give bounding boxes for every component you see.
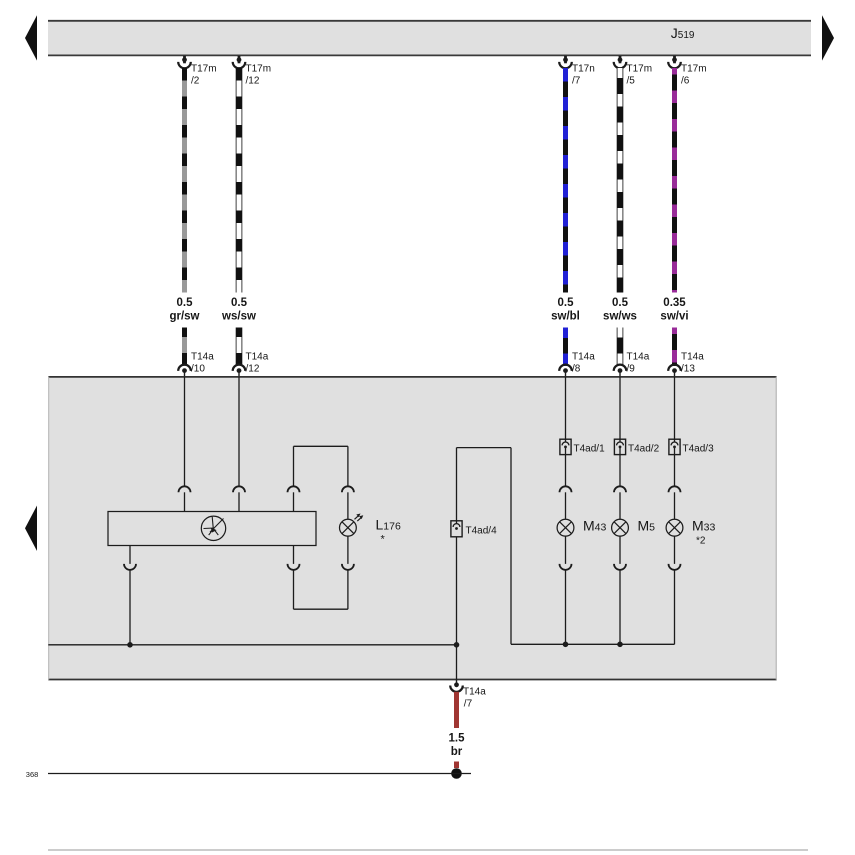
ground wire 368 <box>48 773 471 775</box>
label J519 <box>671 25 695 41</box>
wire sw/vi wire from J519 T17m/6 to T14a/13 (upper striped segment) <box>672 68 677 293</box>
svg-text:/7: /7 <box>464 699 473 710</box>
motor / actuator symbol <box>201 516 225 540</box>
connector T4ad/4 <box>451 521 462 537</box>
label 368 <box>26 770 39 779</box>
svg-text:T17m: T17m <box>191 64 217 75</box>
vertical wire through T4ad/4 to T14a/7 <box>456 448 458 680</box>
connector T14a/10 pin at control unit box <box>178 352 214 377</box>
junction dot lamp rail M5 <box>617 642 623 648</box>
connector arc pin 2 of switch module <box>233 486 245 511</box>
svg-text:sw/bl: sw/bl <box>551 311 580 323</box>
connector T17m/2 pin at bus J519 <box>178 56 216 87</box>
connector T4ad/1 <box>560 439 571 486</box>
svg-text:/9: /9 <box>627 364 636 375</box>
LED L176 lamp circle with cross and arrows <box>340 514 364 537</box>
connector T17n/7 pin at bus J519 <box>559 56 595 87</box>
svg-text:0.5: 0.5 <box>612 297 629 309</box>
internal ground rail left segment <box>48 644 456 646</box>
svg-text:gr/sw: gr/sw <box>169 311 199 323</box>
svg-text:1.5: 1.5 <box>449 733 466 745</box>
svg-text:T17m: T17m <box>681 64 707 75</box>
svg-text:/10: /10 <box>191 364 205 375</box>
connector arc below LED L176 <box>342 536 354 570</box>
connector arc above lamp M5 <box>614 486 626 519</box>
svg-text:T14a: T14a <box>572 352 595 363</box>
wire from lamp M33 to ground rail <box>674 570 676 644</box>
junction dot lamp rail M43 <box>563 642 569 648</box>
wire from T14a/10 into switch module <box>184 377 186 487</box>
wire from box top through T4ad/1 to lamp M43 <box>565 377 567 442</box>
junction dot ground rail / switch module <box>127 642 133 648</box>
wire size label 0.5 sw/ws <box>603 297 637 323</box>
bottom frame line <box>48 849 808 851</box>
wire gr/sw wire from J519 T17m/2 to T14a/10 (lower striped segment) <box>182 328 187 367</box>
svg-text:*: * <box>381 534 386 546</box>
svg-text:T17m: T17m <box>627 64 653 75</box>
svg-text:ws/sw: ws/sw <box>221 311 256 323</box>
bus continuation arrow left <box>25 15 37 60</box>
connector arc above lamp M43 <box>560 486 572 519</box>
svg-text:/12: /12 <box>246 76 260 87</box>
svg-text:/2: /2 <box>191 76 200 87</box>
connector T4ad/3 <box>669 439 680 486</box>
wire from box top through T4ad/2 to lamp M5 <box>619 377 621 442</box>
brown wire 1.5 br upper segment <box>454 692 459 728</box>
wire from switch module ground pin to internal ground rail <box>129 570 131 645</box>
connector arc below lamp M33 <box>669 536 681 570</box>
wire from T14a/12 into switch module <box>238 377 240 487</box>
connector arc below switch module pin 4 (bottom right) <box>288 546 300 570</box>
svg-text:0.5: 0.5 <box>231 297 248 309</box>
svg-text:0.5: 0.5 <box>558 297 575 309</box>
connector arc pin 1 of switch module <box>179 486 191 511</box>
connector T17m/12 pin at bus J519 <box>233 56 271 87</box>
bus continuation arrow right <box>822 15 834 60</box>
svg-text:T14a: T14a <box>246 352 269 363</box>
connector arc pin 3 of switch module (top right) <box>288 486 300 511</box>
wire from box top through T4ad/3 to lamp M33 <box>674 377 676 442</box>
connector T17m/6 pin at bus J519 <box>668 56 706 87</box>
connector arc below switch module ground pin (bottom left) <box>124 546 136 570</box>
label L176 <box>376 517 401 546</box>
svg-text:T4ad/4: T4ad/4 <box>466 525 498 536</box>
svg-text:T14a: T14a <box>681 352 704 363</box>
svg-text:T14a: T14a <box>191 352 214 363</box>
svg-text:*2: *2 <box>696 536 706 547</box>
wire gr/sw wire from J519 T17m/2 to T14a/10 (upper striped segment) <box>182 68 187 293</box>
label T4ad/1 <box>574 443 606 454</box>
wire sw/ws wire from J519 T17m/5 to T14a/9 (lower striped segment) <box>617 328 624 367</box>
svg-text:/7: /7 <box>572 76 581 87</box>
switch module rectangle <box>108 512 316 546</box>
lamp M33 symbol <box>666 519 683 536</box>
wire sw/bl wire from J519 T17n/7 to T14a/8 (lower striped segment) <box>563 328 568 367</box>
connector arc above lamp M33 <box>669 486 681 519</box>
svg-text:br: br <box>451 746 463 758</box>
wire size label 0.5 sw/bl <box>551 297 580 323</box>
lamp ground rail right segment <box>511 643 675 645</box>
connector arc above LED L176 <box>342 486 354 519</box>
svg-text:sw/vi: sw/vi <box>660 311 688 323</box>
connector arc below lamp M43 <box>560 536 572 570</box>
connector T14a/9 pin at control unit box <box>614 352 650 377</box>
label T4ad/4 <box>466 525 498 536</box>
label M43 <box>583 518 607 534</box>
svg-text:/13: /13 <box>681 364 695 375</box>
ground point 368 node dot <box>451 768 462 779</box>
lamp M5 symbol <box>612 519 629 536</box>
wire size label 0.35 sw/vi <box>660 297 688 323</box>
svg-text:0.5: 0.5 <box>177 297 194 309</box>
svg-text:/6: /6 <box>681 76 690 87</box>
svg-text:/8: /8 <box>572 364 581 375</box>
wire sw/bl wire from J519 T17n/7 to T14a/8 (upper striped segment) <box>563 68 568 293</box>
svg-text:T14a: T14a <box>627 352 650 363</box>
svg-text:0.35: 0.35 <box>663 297 686 309</box>
connector T14a/13 pin at control unit box <box>668 352 704 377</box>
svg-text:/5: /5 <box>627 76 636 87</box>
lamp M43 symbol <box>557 519 574 536</box>
svg-text:T4ad/2: T4ad/2 <box>628 443 660 454</box>
wire size label 1.5 br <box>449 733 466 759</box>
label T4ad/3 <box>683 443 715 454</box>
svg-text:T17n: T17n <box>572 64 595 75</box>
connector T17m/5 pin at bus J519 <box>614 56 652 87</box>
wire from LED bottom down and left to switch module pin4 <box>294 570 348 609</box>
wire sw/vi wire from J519 T17m/6 to T14a/13 (lower striped segment) <box>672 328 677 367</box>
svg-text:T17m: T17m <box>246 64 272 75</box>
svg-text:368: 368 <box>26 770 39 779</box>
left continuation arrow at box <box>25 506 37 552</box>
junction dot ground rail / T4ad supply line <box>454 642 460 648</box>
wire loop from T4ad/4 over to lamp ground rail <box>457 448 512 645</box>
connector T14a/8 pin at control unit box <box>559 352 595 377</box>
label T4ad/2 <box>628 443 660 454</box>
bus bar J519 body <box>48 20 811 55</box>
wire size label 0.5 ws/sw <box>221 297 256 323</box>
wire from switch module pin3 up and over to LED L176 <box>294 446 348 486</box>
label M5 <box>638 518 656 534</box>
wire ws/sw wire from J519 T17m/12 to T14a/12 (upper striped segment) <box>236 68 243 293</box>
connector arc below lamp M5 <box>614 536 626 570</box>
wire from lamp M5 to ground rail <box>619 570 621 644</box>
connector T14a/12 pin at control unit box <box>233 352 269 377</box>
wire ws/sw wire from J519 T17m/12 to T14a/12 (lower striped segment) <box>236 328 243 367</box>
control unit box (component outline) <box>48 377 776 680</box>
connector T4ad/2 <box>614 439 625 486</box>
svg-text:/12: /12 <box>246 364 260 375</box>
wire size label 0.5 gr/sw <box>169 297 199 323</box>
wire from lamp M43 to ground rail <box>565 570 567 644</box>
brown wire 1.5 br lower segment <box>454 762 459 769</box>
svg-text:T14a: T14a <box>463 687 486 698</box>
label M33 <box>692 518 716 547</box>
wire sw/ws wire from J519 T17m/5 to T14a/9 (upper striped segment) <box>617 68 624 293</box>
svg-text:T4ad/1: T4ad/1 <box>574 443 606 454</box>
svg-text:sw/ws: sw/ws <box>603 311 637 323</box>
connector T14a/7 pin below box <box>450 680 486 710</box>
svg-text:T4ad/3: T4ad/3 <box>683 443 715 454</box>
